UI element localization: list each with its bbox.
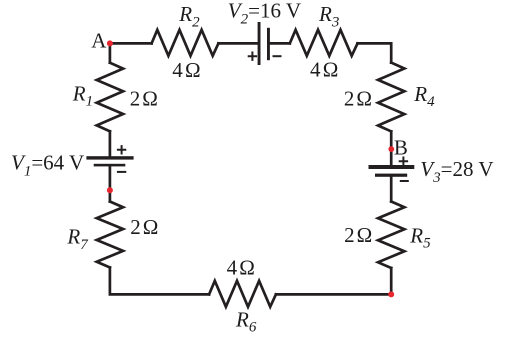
svg-text:A: A <box>91 29 107 53</box>
resistor R2 <box>152 30 219 56</box>
battery V3 long plate <box>369 165 415 169</box>
svg-text:R2: R2 <box>178 2 200 30</box>
wire: battery V2 to R3 <box>270 42 290 45</box>
svg-text:2Ω: 2Ω <box>130 86 158 110</box>
svg-text:4Ω: 4Ω <box>172 58 200 82</box>
wire: R5 to bottom-right corner and left to R6 <box>276 268 391 294</box>
svg-text:2Ω: 2Ω <box>344 223 372 247</box>
svg-text:2Ω: 2Ω <box>344 86 372 110</box>
wire: R2 to battery V2 <box>218 42 257 45</box>
V2 minus sign <box>273 55 282 57</box>
battery V1 short plate <box>94 164 126 167</box>
battery V3 short plate <box>375 174 407 177</box>
node B junction dot <box>388 146 394 152</box>
battery V2 short plate <box>267 28 270 60</box>
wire: R4 through node B to battery V3 <box>390 131 393 165</box>
V3 plus sign <box>399 157 408 166</box>
svg-text:V2=16 V: V2=16 V <box>228 0 301 28</box>
resistor R7 <box>97 202 123 268</box>
junction dot below battery V1 <box>107 187 113 193</box>
svg-text:R3: R3 <box>318 2 339 30</box>
wire: R3 to top-right corner down to R4 <box>358 43 392 62</box>
battery V2 long plate <box>258 22 261 65</box>
wire: R1 up to node A <box>109 43 112 62</box>
battery V1 long plate <box>86 156 133 159</box>
resistor R4 <box>378 63 404 132</box>
resistor R1 <box>97 63 123 132</box>
wire: node A to R2 <box>110 42 152 45</box>
wire: battery V1 up to R1 <box>109 131 112 156</box>
V3 minus sign <box>400 180 409 182</box>
svg-text:R7: R7 <box>66 225 89 253</box>
node A junction dot <box>107 40 113 46</box>
resistor R6 <box>209 281 276 307</box>
wire: R6 to bottom-left corner and up to R7 <box>110 268 209 295</box>
V1 minus sign <box>117 171 126 173</box>
svg-text:R6: R6 <box>235 307 257 332</box>
resistor R3 <box>290 30 358 56</box>
V1 plus sign <box>117 145 126 154</box>
svg-text:V1=64 V: V1=64 V <box>11 151 84 180</box>
svg-text:V3=28 V: V3=28 V <box>420 157 493 186</box>
V2 plus sign <box>248 52 257 61</box>
svg-text:R4: R4 <box>413 82 435 110</box>
svg-text:B: B <box>394 135 408 159</box>
svg-text:4Ω: 4Ω <box>310 57 338 81</box>
svg-text:2Ω: 2Ω <box>130 215 158 239</box>
bottom-right corner junction dot <box>388 291 394 297</box>
wire: R7 to battery V1 (through junction dot) <box>109 167 112 202</box>
resistor R5 <box>378 202 404 269</box>
svg-text:R1: R1 <box>72 81 93 109</box>
svg-text:4Ω: 4Ω <box>227 256 255 280</box>
svg-text:R5: R5 <box>409 224 431 252</box>
wire: battery V3 to R5 <box>390 177 393 202</box>
